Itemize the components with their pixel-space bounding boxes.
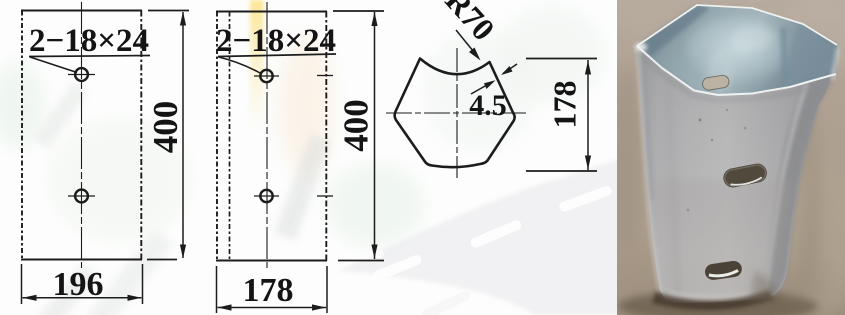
post front-left bend shade	[668, 75, 678, 296]
dim 400 (plate1) extension bottom	[147, 259, 177, 261]
plate1 vertical centerline	[81, 2, 83, 268]
dim 400 (plate2) extension bottom	[338, 260, 384, 262]
watermark yellow bar	[250, 0, 264, 130]
plate1 left edge (dashed)	[21, 11, 23, 260]
dirt speck 3	[744, 127, 747, 130]
dim 400 (plate1) arrow up	[180, 12, 186, 26]
dim 400 (plate2) extension top	[333, 10, 384, 12]
dim 178 arrow right	[312, 304, 326, 310]
section outline	[395, 59, 515, 168]
photo floor mottling 3	[786, 165, 845, 315]
dim 400 (plate2) dimension line	[374, 12, 376, 259]
svg-text:178: 178	[243, 272, 294, 309]
post interior left wall shade	[637, 5, 710, 56]
slot hole bottom	[704, 260, 743, 281]
plate1 hole H1	[68, 68, 95, 81]
left rim corner reflection	[635, 43, 647, 51]
post outer body	[637, 46, 838, 303]
dim 400 (plate1) dimension line	[182, 12, 184, 258]
dim 178 extension left	[216, 266, 218, 313]
dirt speck 4	[687, 209, 690, 212]
plate2 hole H3	[254, 70, 279, 82]
watermark road dash 1	[371, 254, 423, 283]
dirt speck 5	[726, 109, 728, 111]
plate2 vertical centerline	[266, 2, 268, 268]
plate2 bottom edge	[216, 260, 327, 262]
post lower-half gray tint	[652, 180, 790, 298]
dim 178 arrow left	[218, 304, 232, 310]
post left edge highlight	[638, 48, 661, 295]
plate2 right-edge tick at H4 level	[317, 195, 333, 197]
post right bend highlight	[766, 84, 807, 292]
dim 196 dimension line	[23, 297, 142, 299]
post interior right wall crease	[780, 27, 790, 88]
dim 178 extension right	[326, 266, 328, 313]
watermark road band	[338, 158, 622, 315]
dim 400 (plate2) arrow down	[371, 245, 377, 259]
dim 178 dimension line	[218, 307, 327, 309]
watermark gray stroke 3	[34, 81, 89, 149]
post bottom bright strip	[664, 290, 755, 300]
post ground shadow	[618, 290, 818, 315]
dim 196 extension left	[21, 264, 23, 304]
plate2 left inner bend line (dashed)	[229, 12, 231, 261]
plate1 bottom edge	[21, 259, 142, 261]
watermark faint tint 1	[50, 120, 190, 240]
svg-text:178: 178	[547, 81, 583, 129]
watermark green blob 3	[0, 63, 44, 147]
plate2 top edge	[216, 11, 327, 13]
section thickness arrow inner	[471, 82, 493, 95]
dim 178 (section) extension top	[526, 58, 597, 60]
plate2 hole H4	[254, 190, 279, 202]
section R70 leader arrow	[456, 30, 478, 57]
svg-text:4.5: 4.5	[469, 89, 507, 122]
watermark green blob 2	[500, 7, 604, 103]
watermark gray stroke 4	[38, 264, 98, 315]
plate1 top edge	[21, 10, 142, 12]
watermark gray stroke 2	[275, 134, 332, 240]
dim 178 (section) arrow up	[585, 61, 591, 75]
watermark gray stroke 1	[87, 229, 174, 315]
dim 196 arrow right	[128, 295, 142, 301]
photo floor background	[617, 0, 845, 315]
post interior light cloud	[686, 16, 790, 84]
photo floor mottling 4	[617, 0, 673, 37]
right rim corner highlight	[832, 48, 838, 80]
slot hole middle	[722, 162, 769, 189]
svg-text:400: 400	[146, 101, 185, 154]
watermark faint tint 2	[425, 30, 535, 150]
bottom-right corner shadow soften	[750, 270, 782, 302]
front wall top shading under rim	[640, 52, 834, 102]
plate2 right edge (dashed)	[325, 12, 327, 261]
post bottom contact shadow	[652, 290, 774, 310]
plate2 label underline	[218, 54, 336, 57]
watermark cream blob	[278, 35, 334, 175]
svg-text:2−18×24: 2−18×24	[29, 23, 149, 59]
photo floor mottling 2	[780, 0, 845, 77]
section thickness arrow outer	[503, 64, 517, 74]
dirt speck 1	[699, 119, 702, 122]
watermark road dash 4	[420, 289, 471, 315]
plate2 left edge (dashed)	[216, 12, 218, 261]
photo floor mottling 5	[608, 240, 668, 315]
post near rim highlight	[637, 46, 836, 95]
post left outer face shade	[639, 55, 654, 200]
plate2 leader to hole H3	[219, 57, 263, 74]
dim 196 arrow left	[23, 295, 37, 301]
dim 400 (plate2) arrow up	[371, 12, 377, 26]
dim 178 (section) dimension line	[587, 60, 589, 170]
plate1 label underline	[29, 56, 150, 57]
post body vertical sheen	[637, 46, 838, 303]
watermark green blob 1	[327, 165, 423, 245]
post back rim highlight	[637, 5, 837, 46]
plate1 right edge (dashed)	[140, 11, 142, 260]
dim 178 (section) extension bottom	[526, 170, 597, 172]
section horizontal centerline	[386, 112, 528, 114]
dim 400 (plate1) extension top	[148, 10, 189, 12]
watermark road dash 2	[469, 219, 523, 249]
section vertical centerline	[456, 48, 458, 178]
svg-text:400: 400	[337, 99, 376, 152]
post interior bottom-left shade	[638, 50, 718, 96]
post interior (top opening)	[637, 5, 837, 95]
dim 178 (section) arrow down	[585, 156, 591, 170]
post right face shading	[764, 50, 838, 298]
svg-text:196: 196	[53, 266, 104, 303]
dim 400 (plate1) arrow down	[180, 245, 186, 259]
post interior right corner shade	[788, 24, 837, 87]
plate1 leader to hole H1	[30, 57, 77, 73]
dirt speck 2	[711, 139, 713, 141]
watermark road dash 5	[337, 249, 384, 265]
post right-side cast shadow	[780, 110, 821, 300]
photo floor mottling 1	[610, 65, 642, 255]
plate2 right-edge tick at H3 level	[317, 75, 333, 77]
hole in back wall (shows floor)	[702, 74, 730, 90]
watermark road dash 3	[558, 185, 613, 213]
dim 196 extension right	[142, 264, 144, 304]
plate1 hole H2	[68, 190, 95, 203]
